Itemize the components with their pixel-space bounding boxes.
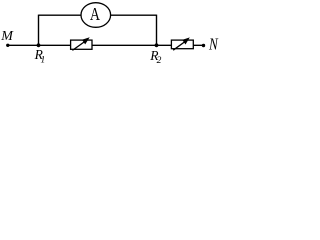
node N dot	[202, 44, 205, 47]
wire: right vertical branch	[156, 15, 158, 46]
wire: top horizontal branch	[39, 14, 157, 16]
wire: main horizontal M to N	[9, 44, 204, 46]
svg-text:A: A	[90, 5, 100, 24]
svg-text:R2: R2	[149, 48, 161, 64]
rheostat R4 arrow	[173, 37, 190, 50]
svg-text:R1: R1	[34, 47, 46, 64]
rheostat R3 box (middle)	[71, 40, 92, 49]
junction R1 dot	[37, 43, 41, 47]
svg-text:M: M	[0, 29, 14, 44]
rheostat R3 arrow	[72, 37, 89, 50]
svg-text:N: N	[208, 36, 219, 54]
node M dot	[6, 44, 9, 47]
ammeter U1 circle	[81, 3, 111, 28]
wire: left vertical branch	[38, 15, 40, 46]
junction R2 dot	[155, 43, 159, 47]
rheostat R4 box (right)	[171, 40, 193, 49]
